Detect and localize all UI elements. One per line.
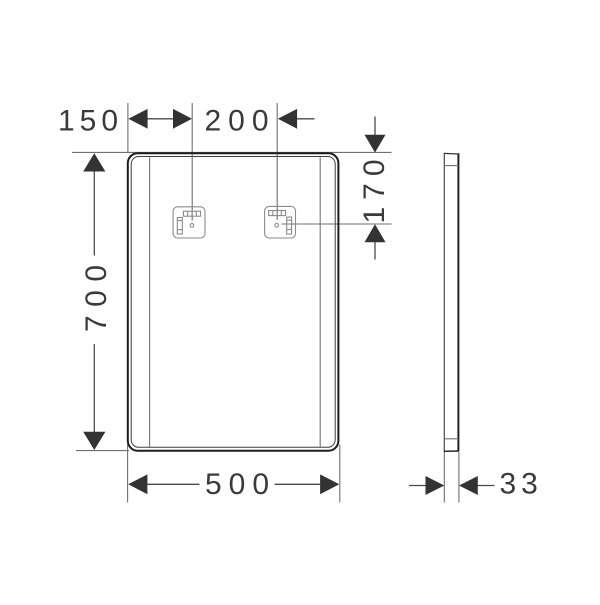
svg-text:150: 150 xyxy=(58,105,123,138)
svg-text:500: 500 xyxy=(205,468,276,501)
svg-text:170: 170 xyxy=(358,152,391,223)
svg-text:33: 33 xyxy=(500,468,543,501)
svg-text:200: 200 xyxy=(205,105,276,138)
svg-text:700: 700 xyxy=(80,256,113,332)
